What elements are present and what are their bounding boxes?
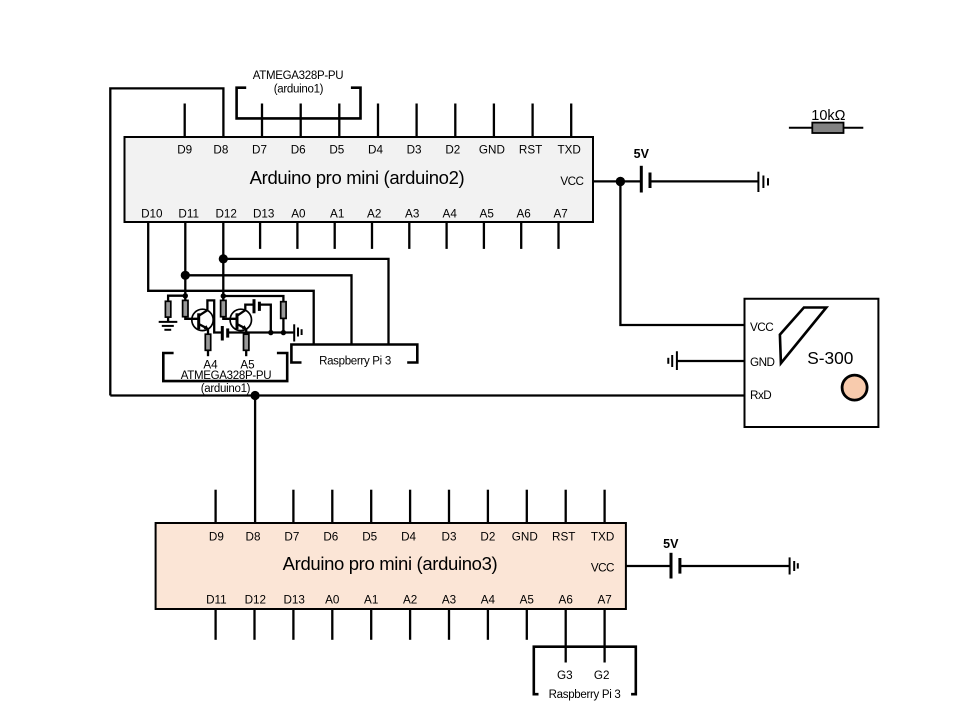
svg-text:D5: D5: [329, 144, 344, 157]
svg-text:VCC: VCC: [750, 321, 773, 334]
svg-text:A3: A3: [405, 208, 419, 221]
svg-text:5V: 5V: [663, 537, 679, 551]
svg-text:D13: D13: [253, 208, 274, 221]
svg-text:D12: D12: [215, 208, 236, 221]
svg-text:D11: D11: [178, 208, 199, 221]
svg-text:D2: D2: [480, 531, 495, 544]
svg-text:(arduino1): (arduino1): [274, 83, 324, 95]
svg-text:RxD: RxD: [750, 389, 771, 402]
svg-text:D7: D7: [284, 531, 299, 544]
svg-text:5V: 5V: [634, 147, 650, 161]
svg-text:D4: D4: [368, 144, 383, 157]
svg-text:A4: A4: [481, 594, 496, 607]
svg-text:G2: G2: [594, 669, 610, 682]
svg-text:RST: RST: [519, 144, 542, 157]
svg-text:D6: D6: [291, 144, 306, 157]
svg-text:D8: D8: [246, 531, 261, 544]
svg-text:VCC: VCC: [591, 562, 614, 575]
svg-text:D3: D3: [442, 531, 457, 544]
svg-text:A6: A6: [559, 594, 573, 607]
svg-text:A1: A1: [330, 208, 344, 221]
svg-text:A0: A0: [291, 208, 306, 221]
svg-text:A7: A7: [553, 208, 567, 221]
svg-text:D6: D6: [323, 531, 338, 544]
svg-text:D9: D9: [209, 531, 224, 544]
svg-text:D3: D3: [407, 144, 422, 157]
svg-text:GND: GND: [750, 356, 775, 369]
svg-text:A5: A5: [480, 208, 495, 221]
svg-text:D5: D5: [362, 531, 377, 544]
svg-text:A0: A0: [325, 594, 340, 607]
svg-text:S-300: S-300: [807, 348, 853, 368]
svg-text:A3: A3: [442, 594, 456, 607]
svg-text:A5: A5: [520, 594, 535, 607]
svg-text:D8: D8: [213, 144, 228, 157]
svg-text:GND: GND: [479, 144, 505, 157]
svg-text:Raspberry Pi 3: Raspberry Pi 3: [319, 356, 391, 368]
svg-text:10kΩ: 10kΩ: [811, 108, 845, 124]
svg-text:TXD: TXD: [558, 144, 581, 157]
svg-text:VCC: VCC: [560, 175, 583, 188]
svg-text:Arduino pro mini (arduino3): Arduino pro mini (arduino3): [283, 553, 498, 574]
svg-text:(arduino1): (arduino1): [201, 383, 251, 395]
svg-text:A2: A2: [403, 594, 417, 607]
svg-text:GND: GND: [512, 531, 538, 544]
svg-text:D2: D2: [445, 144, 460, 157]
svg-text:ATMEGA328P-PU: ATMEGA328P-PU: [181, 370, 271, 382]
svg-text:D7: D7: [252, 144, 267, 157]
svg-text:A6: A6: [516, 208, 530, 221]
svg-text:RST: RST: [552, 531, 575, 544]
svg-text:D4: D4: [401, 531, 416, 544]
svg-text:A4: A4: [443, 208, 458, 221]
svg-text:A1: A1: [364, 594, 378, 607]
svg-text:D9: D9: [177, 144, 192, 157]
svg-text:D10: D10: [141, 208, 163, 221]
svg-text:Arduino pro mini (arduino2): Arduino pro mini (arduino2): [250, 167, 465, 188]
svg-text:D12: D12: [245, 594, 266, 607]
svg-text:G3: G3: [557, 669, 573, 682]
svg-text:TXD: TXD: [591, 531, 614, 544]
svg-text:ATMEGA328P-PU: ATMEGA328P-PU: [253, 70, 343, 82]
svg-text:Raspberry Pi 3: Raspberry Pi 3: [549, 689, 621, 701]
svg-text:A7: A7: [597, 594, 611, 607]
svg-text:A2: A2: [367, 208, 381, 221]
svg-text:D13: D13: [283, 594, 304, 607]
svg-text:D11: D11: [206, 594, 227, 607]
